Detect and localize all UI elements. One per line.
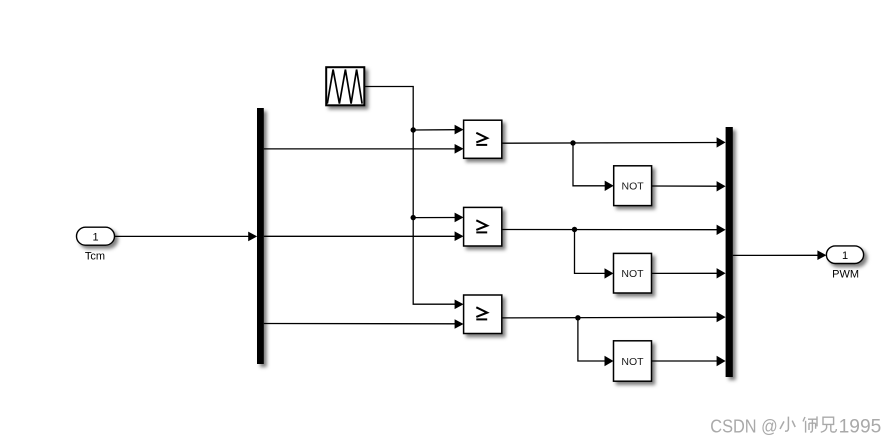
- wire NOT2 out to mux in4: [652, 268, 726, 278]
- wire mux to outport PWM: [733, 250, 827, 260]
- junction node (triangle bus / U2): [411, 215, 416, 220]
- wire triangle source to comparators (vertical bus): [364, 87, 463, 310]
- demux: [257, 108, 264, 364]
- wire U3 out to mux in5: [502, 312, 726, 322]
- repeating sequence block (triangle wave source): [326, 67, 364, 105]
- logical operator NOT3: [614, 341, 652, 381]
- relational operator U3 (>=): [464, 295, 502, 334]
- junction node (U3 out / NOT3): [575, 315, 580, 320]
- wire branch to NOT1: [573, 143, 614, 191]
- svg-text:Tcm: Tcm: [85, 251, 105, 263]
- logical operator NOT2: [614, 253, 652, 293]
- wire demux out3 to comparator U3 in2: [264, 319, 464, 329]
- junction node (U2 out / NOT2): [572, 227, 577, 232]
- relational operator U1 (>=): [464, 120, 502, 158]
- logical operator NOT1: [614, 166, 652, 206]
- wire U1 out to mux in1: [502, 137, 726, 147]
- svg-text:NOT: NOT: [622, 181, 645, 193]
- wire Tcm to demux: [115, 232, 258, 242]
- wire branch to U2 in1: [413, 213, 463, 223]
- svg-text:NOT: NOT: [621, 268, 644, 280]
- junction node (triangle bus / U1): [411, 127, 416, 132]
- svg-text:1: 1: [842, 250, 848, 262]
- wire demux out1 to comparator U1 in2: [264, 144, 464, 154]
- wire U2 out to mux in3: [502, 225, 726, 235]
- wire demux out2 to comparator U2 in2: [264, 231, 464, 241]
- wire branch to NOT3: [578, 318, 614, 366]
- svg-text:NOT: NOT: [621, 356, 644, 368]
- junction node (U1 out / NOT1): [570, 140, 575, 145]
- mux: [726, 127, 733, 377]
- inport Tcm (port 1 oval): [77, 227, 115, 262]
- wire branch to NOT2: [575, 230, 614, 279]
- svg-text:1: 1: [92, 232, 98, 244]
- wire branch to U1 in1: [413, 125, 463, 135]
- relational operator U2 (>=): [464, 207, 502, 246]
- wire NOT1 out to mux in2: [652, 181, 726, 191]
- svg-text:PWM: PWM: [832, 269, 859, 281]
- wire NOT3 out to mux in6: [652, 356, 726, 366]
- outport PWM (port 1 oval): [826, 246, 863, 281]
